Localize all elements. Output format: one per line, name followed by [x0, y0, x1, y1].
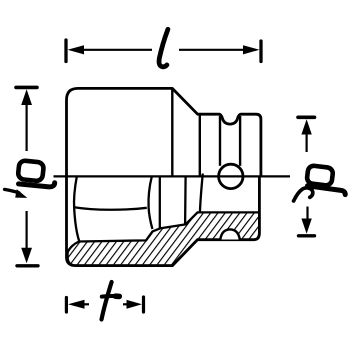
dimension l: right arrowhead	[243, 45, 260, 54]
dimension l: left extension tick	[64, 40, 67, 62]
dimension d2: down arrowhead	[301, 219, 311, 234]
dimension t: left arrowhead	[68, 300, 85, 309]
label d1: subscript 1	[5, 189, 20, 192]
label d2: subscript 2	[294, 188, 313, 201]
dimension d1: bottom extension tick	[17, 264, 38, 267]
square recess chamfer edge	[200, 174, 203, 213]
label l (italic letter)	[159, 29, 168, 66]
edge chamfer to collar	[199, 115, 201, 176]
label d2: stem of rotated d	[308, 186, 346, 195]
dimension d1: up arrowhead	[21, 89, 32, 105]
dimension t: left extension tick	[65, 298, 68, 313]
square recess end face edge	[159, 177, 161, 229]
hex recess flat edge	[74, 207, 147, 210]
ball hole	[219, 164, 243, 188]
dimension d2: bottom extension tick	[299, 234, 315, 237]
dimension l: line	[82, 49, 245, 51]
groove right edge	[239, 116, 241, 166]
dimension t: right extension tick	[142, 297, 145, 312]
label t (italic letter)	[102, 282, 112, 320]
drive groove arch in section	[220, 229, 240, 239]
section hatch area	[68, 212, 260, 265]
dimension d2: top extension tick	[298, 116, 315, 120]
square recess inner edge	[184, 177, 187, 225]
dimension l: right extension tick	[259, 41, 262, 62]
dimension l: left arrowhead	[68, 45, 85, 54]
hex recess entry chamfer (wavy inner-left edge)	[74, 177, 79, 242]
dimension d2: line	[306, 132, 309, 219]
dimension d2: up arrowhead	[301, 119, 311, 134]
dimension d1: top extension tick	[16, 86, 37, 90]
edge between body and chamfer	[171, 88, 173, 176]
dimension t: line	[82, 303, 129, 305]
label d1: stem of rotated d	[19, 183, 55, 187]
centre line	[54, 175, 291, 177]
hex recess back edge	[149, 177, 153, 230]
groove left edge	[219, 116, 221, 166]
dimension d1: line	[26, 103, 28, 250]
body outline bottom half (outer profile)	[67, 176, 260, 266]
dimension d1: down arrowhead	[21, 248, 32, 263]
body outline top half	[67, 88, 261, 176]
dimension t: right arrowhead	[127, 300, 143, 309]
label d1: bowl of rotated d	[18, 160, 44, 181]
label d2: bowl of rotated d	[306, 165, 333, 186]
